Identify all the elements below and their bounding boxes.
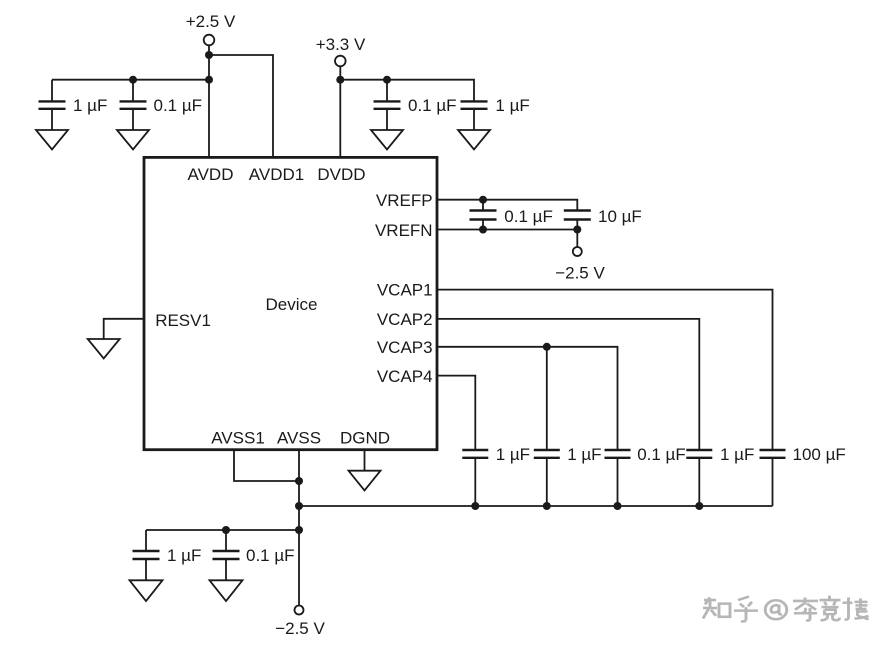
junction dot rail at C10 — [695, 502, 703, 510]
wire AVSS1 — [234, 449, 299, 481]
ground below C4 — [458, 130, 490, 150]
glyph 捷 — [843, 597, 869, 619]
wire left branch — [146, 529, 299, 531]
svg-text:1 µF: 1 µF — [495, 96, 529, 115]
ground below C1 — [36, 130, 68, 150]
svg-text:AVSS: AVSS — [277, 429, 321, 448]
glyph 乎 — [734, 597, 758, 622]
junction dot AVSS left branch — [295, 526, 303, 534]
svg-text:100 µF: 100 µF — [793, 445, 846, 464]
wire VCAP3 branch down — [546, 347, 548, 449]
capacitor C4 1 µF — [461, 101, 488, 130]
wire VREFN to -2.5V terminal — [576, 230, 578, 248]
junction dot right rail at C3 — [383, 76, 391, 84]
capacitor C2 0.1 µF — [120, 80, 147, 130]
ground below C2 — [117, 130, 149, 150]
wire +3.3V vertical to DVDD — [339, 66, 341, 158]
capacitor C10 1 µF — [686, 450, 712, 506]
wire branch to AVDD1 — [209, 55, 273, 158]
svg-text:−2.5 V: −2.5 V — [555, 264, 605, 283]
terminal circle -2.5V (AVSS) — [295, 606, 304, 615]
svg-text:AVDD1: AVDD1 — [249, 165, 304, 184]
capacitor C9 0.1 µF — [605, 450, 631, 506]
svg-text:VCAP1: VCAP1 — [377, 281, 433, 300]
svg-text:0.1 µF: 0.1 µF — [154, 96, 203, 115]
junction dot VREFP at C5 — [479, 196, 487, 204]
wire +2.5V vertical to AVDD — [208, 45, 210, 158]
capacitor C7 1 µF — [462, 450, 488, 506]
ground below C12 — [130, 580, 163, 601]
svg-text:VREFN: VREFN — [375, 221, 433, 240]
ground at RESV1 — [88, 339, 120, 359]
wire VREFP — [437, 200, 577, 210]
svg-text:0.1 µF: 0.1 µF — [408, 96, 457, 115]
capacitor C5 0.1 µF — [470, 200, 497, 230]
svg-text:+3.3 V: +3.3 V — [316, 35, 366, 54]
capacitor C1 1 µF — [39, 80, 66, 130]
capacitor C6 10 µF — [564, 211, 591, 230]
svg-text:Device: Device — [266, 295, 318, 314]
svg-text:VCAP2: VCAP2 — [377, 310, 433, 329]
device U1 body — [144, 157, 437, 449]
capacitor C8 1 µF — [534, 450, 560, 506]
ground below C3 — [371, 130, 403, 150]
wire DGND — [364, 449, 366, 471]
junction dot AVSS1 join — [295, 477, 303, 485]
svg-text:−2.5 V: −2.5 V — [275, 619, 325, 638]
junction dot rail at C8 — [543, 502, 551, 510]
svg-text:1 µF: 1 µF — [73, 96, 107, 115]
wire bottom rail — [299, 505, 773, 507]
capacitor C12 1 µF — [133, 530, 160, 580]
svg-text:1 µF: 1 µF — [167, 546, 201, 565]
svg-text:VCAP3: VCAP3 — [377, 338, 433, 357]
junction dot left rail at C2 — [129, 76, 137, 84]
junction dot +3.3V rail — [336, 76, 344, 84]
svg-text:+2.5 V: +2.5 V — [186, 12, 236, 31]
watermark 知乎 @李竞捷 — [703, 596, 869, 622]
svg-text:1 µF: 1 µF — [496, 445, 530, 464]
svg-text:DGND: DGND — [340, 429, 390, 448]
svg-text:RESV1: RESV1 — [155, 311, 211, 330]
svg-text:1 µF: 1 µF — [720, 445, 754, 464]
capacitor C13 0.1 µF — [213, 530, 240, 580]
svg-text:VREFP: VREFP — [376, 191, 433, 210]
junction dot rail at C9 — [614, 502, 622, 510]
capacitor C11 100 µF — [760, 450, 786, 506]
svg-text:0.1 µF: 0.1 µF — [637, 445, 686, 464]
junction dot AVSS rail join — [295, 502, 303, 510]
wire +2.5V left rail — [52, 79, 209, 81]
junction dot VREFN at C5 — [479, 226, 487, 234]
ground below C13 — [210, 580, 243, 601]
junction dot VREFN at C6 — [573, 226, 581, 234]
svg-text:0.1 µF: 0.1 µF — [504, 207, 553, 226]
junction dot at +2.5V branch — [205, 51, 213, 59]
ground at DGND — [349, 471, 381, 491]
terminal circle +3.3V — [335, 56, 346, 67]
junction dot VCAP3 branch — [543, 343, 551, 351]
wire VCAP4 — [437, 376, 475, 449]
glyph @ — [765, 600, 787, 619]
junction dot left rail at AVDD wire — [205, 76, 213, 84]
svg-text:10 µF: 10 µF — [598, 207, 642, 226]
wire +3.3V right rail — [340, 80, 474, 101]
svg-text:DVDD: DVDD — [317, 165, 365, 184]
terminal circle -2.5V (VREF) — [573, 247, 582, 256]
wire VREFN — [437, 229, 577, 231]
svg-text:1 µF: 1 µF — [567, 445, 601, 464]
wire VCAP1 — [437, 290, 773, 449]
junction dot left branch at C13 — [222, 526, 230, 534]
wire AVSS to -2.5V — [298, 449, 300, 606]
glyph 李 — [793, 597, 818, 620]
junction dot rail at C7 — [471, 502, 479, 510]
wire VCAP3 — [437, 347, 618, 449]
svg-text:AVSS1: AVSS1 — [211, 429, 265, 448]
wire VCAP2 — [437, 319, 699, 449]
glyph 知 — [703, 597, 730, 618]
glyph 竞 — [820, 596, 841, 621]
terminal circle +2.5V — [204, 35, 215, 46]
capacitor C3 0.1 µF — [374, 80, 401, 130]
svg-text:0.1 µF: 0.1 µF — [246, 546, 295, 565]
svg-text:AVDD: AVDD — [188, 165, 234, 184]
wire RESV1 to ground — [104, 319, 145, 339]
svg-text:VCAP4: VCAP4 — [377, 367, 433, 386]
